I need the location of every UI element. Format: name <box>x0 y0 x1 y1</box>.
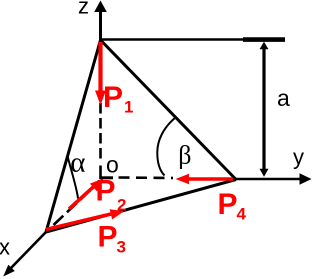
svg-text:y: y <box>293 145 304 170</box>
svg-text:1: 1 <box>124 98 133 117</box>
wire: dashed horizontal y-axis from origin o to right vertex <box>119 176 174 179</box>
force P3 arrow (red, along bottom edge) <box>46 214 112 230</box>
svg-text:P: P <box>98 221 118 254</box>
dimension a vertical line with arrowheads <box>262 44 265 174</box>
angle beta arc <box>157 118 175 176</box>
wire: dashed vertical from apex to origin o <box>99 43 102 160</box>
svg-text:β: β <box>178 141 191 170</box>
svg-text:x: x <box>0 235 10 260</box>
svg-text:3: 3 <box>117 238 126 257</box>
svg-text:α: α <box>70 147 85 179</box>
force P2 arrow (red, from lower-left toward origin) <box>69 186 94 209</box>
svg-text:P: P <box>103 81 123 114</box>
angle alpha arc <box>68 156 79 199</box>
x-axis with arrowhead <box>10 232 46 269</box>
wire: dashed line from bottom-left vertex to origin o <box>54 181 101 225</box>
y-axis solid part with arrowhead <box>236 178 301 181</box>
wire: bottom edge from bottom-left vertex to right vertex <box>46 180 236 233</box>
svg-text:z: z <box>78 0 89 19</box>
node o corner dash (vertical part) <box>99 166 102 180</box>
wire: diagonal edge from apex to right vertex <box>101 40 237 180</box>
z-axis <box>99 12 102 40</box>
node o corner dash (horizontal part) <box>100 176 114 179</box>
svg-text:a: a <box>277 85 290 111</box>
force P4 arrow (red, leftward along y-axis) <box>187 177 233 181</box>
force P1 arrow (red, downward from apex) <box>98 42 102 92</box>
svg-text:P: P <box>218 188 238 221</box>
wire: left edge from apex to bottom-left vertex <box>46 40 101 232</box>
wire: top horizontal reference line from apex <box>100 38 285 41</box>
svg-text:4: 4 <box>237 205 247 224</box>
svg-text:P: P <box>96 175 116 208</box>
